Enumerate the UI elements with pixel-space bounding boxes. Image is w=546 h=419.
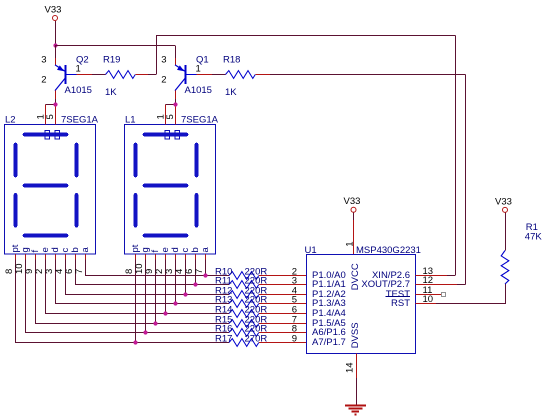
resistor R18 1K (223, 55, 255, 99)
wire L1 pin 7 down to row (205, 260, 207, 276)
wire DVCC to V33 (353, 212, 355, 220)
node V33 junction (53, 43, 57, 47)
svg-text:U1: U1 (305, 245, 317, 256)
svg-text:9: 9 (292, 334, 297, 345)
ground (345, 406, 366, 415)
wire row to R10 (216, 275, 229, 277)
resistor R14 220R (215, 305, 267, 318)
wire R14 to U1 pin 6 (259, 305, 307, 316)
wire R17 to U1 pin 9 (259, 334, 307, 345)
pin 6 of L2 (x=75) (64, 254, 75, 274)
wire L1 pin 8 down to row (135, 260, 137, 343)
pin 4 of L2 (x=65) (54, 254, 65, 274)
pin 7 of L1 (x=205) (194, 254, 205, 274)
wire L2 pin 2 to row (45, 260, 47, 314)
wire L1 pin 10 down to row (145, 260, 147, 333)
pin 8 of L1 (x=135) (124, 254, 135, 274)
svg-text:1: 1 (196, 64, 201, 75)
svg-text:5: 5 (45, 114, 56, 119)
wire R1 to V33 (505, 213, 507, 251)
pin 13 XIN (416, 275, 447, 277)
pin 2 of L2 (x=45) (34, 254, 45, 274)
wire Q2 base to R19 (92, 74, 106, 76)
resistor R15 220R (215, 315, 267, 328)
wire row to R17 (216, 342, 229, 344)
wire R13 to U1 pin 5 (259, 295, 307, 306)
wire R15 to U1 pin 7 (259, 315, 307, 326)
svg-text:V33: V33 (45, 5, 62, 16)
wire R10 to U1 pin 2 (259, 267, 307, 278)
wire L2 pin 6 to row (75, 260, 77, 285)
wire L2 pin 7 to row (85, 260, 87, 276)
svg-text:7SEG1A: 7SEG1A (61, 115, 99, 126)
pin 7 of L2 (x=85) (74, 254, 85, 274)
wire R12 to U1 pin 4 (259, 286, 307, 297)
resistor R16 220R (215, 324, 267, 337)
pin 8 of L2 (x=15) (4, 254, 15, 274)
node L1 pin 8 junction (133, 340, 137, 344)
svg-text:1: 1 (76, 64, 81, 75)
power V33 (right) (495, 196, 512, 212)
svg-text:7: 7 (194, 269, 205, 274)
svg-text:47K: 47K (525, 232, 543, 243)
svg-text:5: 5 (165, 114, 176, 119)
svg-text:2: 2 (41, 75, 46, 86)
pin 2 of L1 (x=165) (154, 254, 165, 274)
wire V33 to junction (55, 21, 57, 46)
svg-text:R17: R17 (215, 334, 232, 345)
wire L2 pin 4 to row (65, 260, 67, 295)
pin 10 RST (416, 303, 436, 305)
wire row to R16 (216, 332, 229, 334)
svg-text:7: 7 (74, 269, 85, 274)
svg-text:A7/P1.7: A7/P1.7 (312, 337, 346, 348)
wire row to R12 (216, 294, 229, 296)
svg-text:3: 3 (161, 55, 166, 66)
wire junction to Q1 emitter (55, 45, 175, 47)
wire L1 pin 9 down to row (155, 260, 157, 324)
wire L1 pin 6 down to row (195, 260, 197, 285)
resistor R11 220R (215, 276, 267, 289)
svg-text:V33: V33 (344, 196, 361, 207)
wire L1 pin 4 down to row (185, 260, 187, 295)
wire Q1 collector to L1 pins 1,5 (166, 104, 176, 106)
node L1 pin 9 junction (153, 321, 157, 325)
7-seg display L2 7SEG1A (5, 105, 99, 255)
wire R19 to XIN net (135, 74, 148, 76)
node L1 pin 10 junction (143, 330, 147, 334)
wire row to R15 (216, 323, 229, 325)
pin 4 of L1 (x=185) (174, 254, 185, 274)
svg-text:DVCC: DVCC (350, 263, 361, 290)
IC U1 MSP430G2231 (305, 245, 434, 354)
resistor R13 220R (215, 295, 267, 308)
svg-text:V33: V33 (495, 196, 512, 207)
wire row to R11 (216, 284, 229, 286)
svg-text:RST: RST (391, 298, 410, 309)
svg-text:A1015: A1015 (185, 85, 212, 96)
wire R16 to U1 pin 8 (259, 324, 307, 335)
wire RST to R1 (436, 303, 505, 305)
svg-text:a: a (200, 247, 211, 253)
wire row to R13 (216, 303, 229, 305)
wire DVSS to ground (356, 378, 358, 405)
resistor R12 220R (215, 286, 267, 299)
wire L2 pin 8 to row (15, 260, 17, 343)
wire L2 pin 3 to row (55, 260, 57, 304)
node L1 pin 2 junction (163, 311, 167, 315)
power V33 (above U1) (344, 196, 361, 212)
7-seg display L1 7SEG1A (125, 105, 219, 255)
pin 10 of L1 (x=145) (134, 254, 145, 274)
node L1 pin 7 junction (203, 273, 207, 277)
pin 14 DVSS (345, 353, 357, 378)
svg-text:L2: L2 (5, 115, 16, 126)
wire L2 pin 9 to row (35, 260, 37, 324)
pin 10 of L2 (x=25) (14, 254, 25, 274)
svg-text:1K: 1K (225, 87, 237, 98)
svg-text:A1015: A1015 (65, 85, 92, 96)
svg-text:1: 1 (344, 241, 355, 246)
svg-text:1K: 1K (105, 87, 117, 98)
wire junction to Q2 emitter (55, 46, 57, 59)
pin 9 of L1 (x=155) (144, 254, 155, 274)
svg-text:DVSS: DVSS (350, 322, 361, 348)
pin 3 of L2 (x=55) (44, 254, 55, 274)
svg-text:14: 14 (345, 362, 356, 373)
svg-text:L1: L1 (125, 115, 136, 126)
wire R18 to XOUT net (255, 74, 270, 76)
pin 3 of L1 (x=175) (164, 254, 175, 274)
node L1 pin 6 junction (193, 282, 197, 286)
pin 6 of L1 (x=195) (184, 254, 195, 274)
wire L1 pin 2 down to row (165, 260, 167, 314)
transistor Q1 A1015 (161, 55, 212, 105)
svg-text:2: 2 (161, 75, 166, 86)
node L1 pin 3 junction (173, 301, 177, 305)
wire L1 pin 3 down to row (175, 260, 177, 304)
svg-text:R18: R18 (223, 55, 240, 66)
resistor R1 47K (501, 222, 542, 284)
wire Q1 base to R18 (212, 74, 226, 76)
pin 11 TEST (no connect) (416, 293, 446, 297)
resistor R19 1K (103, 55, 135, 99)
svg-text:3: 3 (41, 55, 46, 66)
wire R11 to U1 pin 3 (259, 276, 307, 287)
pin 9 of L2 (x=35) (24, 254, 35, 274)
node Q2-L2 junction (53, 102, 57, 106)
TEST active-low underline (386, 296, 411, 298)
wire Q2 collector to L2 pins 1,5 (46, 104, 56, 106)
svg-text:a: a (80, 247, 91, 253)
resistor R17 270R (215, 334, 267, 347)
svg-text:R19: R19 (103, 55, 120, 66)
power V33 (left) (45, 5, 62, 21)
node L1 pin 4 junction (183, 292, 187, 296)
svg-text:MSP430G2231: MSP430G2231 (356, 245, 421, 256)
wire L2 pin 10 to row (25, 260, 27, 333)
pin 1 DVCC (344, 220, 355, 254)
wire row to R14 (216, 313, 229, 315)
node Q1-L1 junction (173, 102, 177, 106)
pin 12 XOUT (416, 284, 457, 286)
svg-text:7SEG1A: 7SEG1A (181, 115, 219, 126)
resistor R10 220R (215, 267, 267, 280)
transistor Q2 A1015 (41, 55, 92, 105)
